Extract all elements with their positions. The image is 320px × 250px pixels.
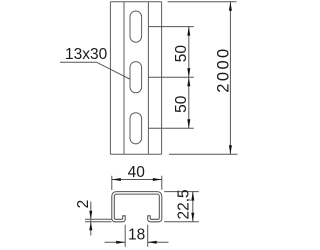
arrow up to 221.8 [89, 222, 92, 231]
slot 1 [130, 11, 142, 42]
arrow left 40 [112, 178, 121, 181]
dimension line 2000 [229, 2, 231, 155]
arrow down at slot3 center [187, 119, 190, 128]
dim 40: dimension line [112, 179, 162, 181]
arrow down to 219.3 [89, 211, 92, 220]
arrow up at slot2 center (lower segment) [187, 77, 190, 86]
slot 3 [130, 113, 142, 144]
svg-text:18: 18 [128, 227, 145, 244]
svg-text:50: 50 [173, 95, 190, 113]
svg-text:2: 2 [75, 200, 92, 209]
arrow down 22,5 [191, 213, 194, 222]
svg-text:22,5: 22,5 [175, 189, 192, 219]
arrow up 2000 [229, 2, 232, 11]
arrow down 2000 [229, 145, 232, 154]
svg-text:50: 50 [173, 45, 190, 63]
arrow up at slot1 center [187, 27, 190, 36]
dim 2: dimension line [90, 202, 92, 236]
dim 18: extension lines [125, 225, 148, 247]
svg-text:13x30: 13x30 [65, 46, 108, 63]
svg-text:40: 40 [128, 164, 146, 181]
extension lines 2000 [168, 2, 238, 155]
dim 40: extension lines [112, 176, 162, 190]
arrow right to 125.2 [116, 241, 125, 244]
dim 2: extension lines [85, 219, 112, 222]
svg-text:2000: 2000 [214, 46, 232, 92]
arrow left to 147.7 [148, 241, 157, 244]
arrow up 22,5 [191, 192, 194, 201]
leader 13x30 [60, 62, 130, 79]
extension lines slot centers [148, 27, 193, 129]
arrow right 40 [153, 178, 162, 181]
dimension line 50/50 [188, 27, 190, 129]
rail outline [110, 2, 161, 155]
dim 22,5: dimension line [192, 192, 194, 222]
arrow down at slot2 center (upper segment) [187, 68, 190, 77]
slot 2 [130, 62, 142, 93]
dim 22,5: extension lines [164, 192, 199, 222]
dim 18: dimension line outside segments [105, 241, 169, 243]
profile cross-section [112, 192, 162, 222]
